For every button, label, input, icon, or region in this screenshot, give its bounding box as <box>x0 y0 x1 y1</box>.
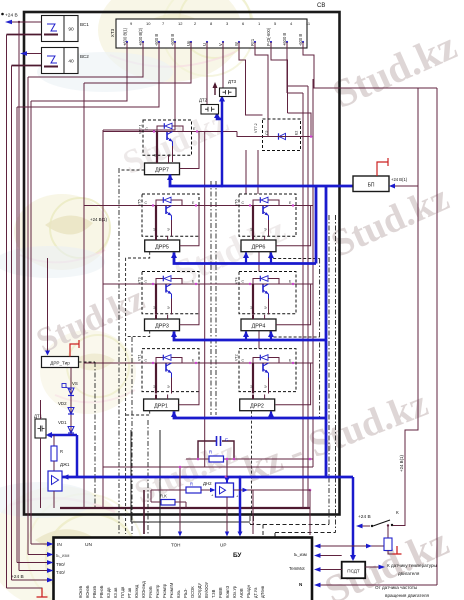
thyristor VS <box>62 368 78 436</box>
svg-text:ДРР2: ДРР2 <box>250 404 264 410</box>
svg-text:VТ7.2: VТ7.2 <box>254 123 258 133</box>
feedback wires DRR to collector <box>179 132 311 405</box>
wire BC1 output arrow <box>5 20 42 25</box>
wire pin1 to left bus <box>31 42 127 101</box>
current sensor DT2 <box>199 98 219 115</box>
stub wires module to driver <box>156 155 253 399</box>
svg-text:ТОН: ТОН <box>171 543 181 548</box>
sense wires down to BU <box>143 490 145 534</box>
junction dot <box>387 524 389 526</box>
XT3 pin labels <box>123 27 304 46</box>
chassis symbol red <box>37 588 48 597</box>
driver DRR3 <box>145 319 180 331</box>
bottom thick maroon bus <box>60 507 310 509</box>
svg-text:ВУ/ЮОУ: ВУ/ЮОУ <box>204 581 209 598</box>
blue gate bus row1 <box>170 175 353 187</box>
svg-text:VТ1: VТ1 <box>138 354 142 361</box>
svg-text:РкомпМ: РкомпМ <box>169 582 174 598</box>
svg-text:РУкэБ: РУкэБ <box>148 586 153 598</box>
row3 collector wire <box>103 283 313 285</box>
svg-text:КомпЗ: КомпЗ <box>225 585 230 598</box>
enclosure frame CB <box>24 12 340 515</box>
svg-text:Р-О(-600): Р-О(-600) <box>266 27 271 46</box>
XT3 pin numbers <box>130 21 311 26</box>
wire pin8 to VT7.2 <box>239 42 263 115</box>
terminal block XT3 <box>116 19 307 48</box>
current sensor DT3 <box>220 79 237 97</box>
svg-text:Т90/: Т90/ <box>56 562 66 567</box>
svg-text:ПЛ.дв: ПЛ.дв <box>120 587 125 598</box>
svg-text:ВС2: ВС2 <box>80 54 89 59</box>
svg-text:V: V <box>218 43 223 46</box>
left vertical bus wires <box>7 22 104 588</box>
rectifier BC2 <box>42 48 90 74</box>
svg-text:Юх.Ур: Юх.Ур <box>232 585 237 598</box>
transistor VT7.1 <box>139 120 199 162</box>
wire pin6 to DT2 <box>206 42 208 105</box>
svg-text:+24 В: +24 В <box>11 574 24 580</box>
wire N speed sensor <box>314 583 437 588</box>
svg-text:ХТ3: ХТ3 <box>110 28 115 37</box>
svg-text:ПСДТ: ПСДТ <box>347 569 360 574</box>
+24V(1) rail right side <box>405 88 437 585</box>
svg-text:вращения двигателя: вращения двигателя <box>385 593 430 598</box>
svg-text:БП: БП <box>368 183 375 189</box>
wire pin4 to column x103 <box>103 42 175 130</box>
svg-text:+24 В(1): +24 В(1) <box>399 454 404 472</box>
svg-text:+600 В: +600 В <box>282 33 287 46</box>
resistor R snubber <box>209 450 224 463</box>
rectifier BC1 <box>42 16 90 42</box>
svg-text:+24 В(1): +24 В(1) <box>391 177 408 182</box>
diode VD1 <box>58 420 74 433</box>
comparator DN2 <box>203 478 239 499</box>
control wire into DRR_Tir <box>45 258 50 356</box>
svg-text:ДРР_Тир: ДРР_Тир <box>50 361 70 366</box>
XT3 pin dots <box>126 41 304 43</box>
svg-text:К датчику температуры: К датчику температуры <box>387 563 437 568</box>
wire to temperature sensor <box>365 565 385 570</box>
wire pin10 to right column <box>271 42 288 113</box>
svg-text:КЗ.дв: КЗ.дв <box>106 587 111 598</box>
svg-text:РТ.ав: РТ.ав <box>127 588 132 598</box>
svg-text:Рtьодн: Рtьодн <box>246 585 251 598</box>
dash-dot boundary left pair <box>119 168 336 534</box>
wire BP input from +24V rail <box>389 184 418 189</box>
transistor VT7.2 diode module <box>254 119 301 151</box>
wire pin7 to DT3 <box>222 42 224 88</box>
svg-text:КОтрДУ: КОтрДУ <box>197 583 202 598</box>
svg-text:РВнэБ: РВнэБ <box>99 585 104 598</box>
svg-text:ДТ1: ДТ1 <box>34 414 43 419</box>
blue riser to row2 <box>315 186 318 264</box>
wire BC1 supply <box>7 34 42 36</box>
svg-text:R: R <box>190 482 193 487</box>
transistor VT2 <box>235 349 297 394</box>
divider wire y490 <box>151 489 186 491</box>
svg-text:VТ6: VТ6 <box>235 199 239 206</box>
watermark logo bottom-left <box>0 482 165 600</box>
svg-text:Т.ЗВ: Т.ЗВ <box>211 589 216 598</box>
dashed gate links DRR to bus <box>119 170 320 516</box>
driver DRR1 <box>144 399 179 411</box>
DN2 output wire <box>227 488 310 535</box>
node +24 V top-left <box>1 13 17 19</box>
svg-text:R: R <box>60 449 63 454</box>
svg-text:VТ2: VТ2 <box>235 354 239 361</box>
svg-text:R: R <box>209 450 212 455</box>
dashed boundary to PSDT <box>250 525 336 538</box>
svg-text:РВкэБ: РВкэБ <box>92 586 97 598</box>
row2 collector wire <box>84 205 313 207</box>
svg-text:ДТ3: ДТ3 <box>228 79 237 84</box>
svg-text:VТ7.1: VТ7.1 <box>139 124 143 134</box>
svg-text:-600 В: -600 В <box>154 34 159 46</box>
svg-text:Uр: Uр <box>186 40 191 46</box>
wire BC2 supply <box>12 65 42 67</box>
black signal wires to BU <box>130 430 132 522</box>
svg-text:+24 В: +24 В <box>358 514 371 520</box>
svg-text:VТ3: VТ3 <box>138 277 142 284</box>
snubber loop <box>198 441 234 459</box>
wire pin9 to VT7.2 <box>255 42 268 137</box>
junction node on BC1 output <box>18 21 20 23</box>
arrow marker near DT3 <box>213 82 218 95</box>
driver DRR5 <box>145 240 180 252</box>
transistor VT6 <box>235 194 297 236</box>
resistor R input <box>186 482 216 494</box>
diode VD2 <box>58 401 74 414</box>
svg-text:ДРР3: ДРР3 <box>155 324 169 330</box>
driver DRR7 <box>145 163 180 175</box>
svg-text:VТ5: VТ5 <box>138 199 142 206</box>
svg-text:двигателя: двигателя <box>398 571 420 576</box>
blue gate bus row3 <box>174 332 326 341</box>
central vertical wires <box>205 79 313 508</box>
svg-text:КОнэБ: КОнэБ <box>85 585 90 598</box>
svg-text:Рtь3-: Рtь3- <box>183 588 188 598</box>
measurement wire y467 <box>103 466 313 468</box>
svg-text:Ркомпр: Ркомпр <box>162 583 167 598</box>
svg-text:TemMot: TemMot <box>289 566 305 571</box>
svg-text:VD2: VD2 <box>58 401 67 406</box>
svg-text:Юкэжд: Юкэжд <box>134 584 139 598</box>
svg-text:Е2: Е2 <box>295 131 299 135</box>
snubber wire y459 <box>186 458 313 460</box>
current sensor DT1 <box>34 400 46 508</box>
svg-text:-600 В: -600 В <box>170 34 175 46</box>
svg-text:R.К: R.К <box>160 494 167 499</box>
svg-text:Кэtь: Кэtь <box>176 590 181 598</box>
control unit BU <box>54 538 313 600</box>
driver DRR6 <box>241 240 276 252</box>
wire BU tb line <box>314 553 342 558</box>
relay coil resistor <box>384 526 393 555</box>
svg-text:АЮВ: АЮВ <box>239 588 244 598</box>
blue gate bus row4 <box>174 412 326 419</box>
resistor R divider <box>51 435 63 471</box>
driver DRR4 <box>241 319 276 331</box>
wire pin11 to right column <box>287 42 308 86</box>
svg-text:UN: UN <box>85 542 92 548</box>
transistor VT3 <box>138 272 200 315</box>
wire tb_izm <box>314 544 384 549</box>
XT3 fan wires <box>17 42 437 137</box>
transistor VT4 <box>235 272 297 315</box>
svg-text:С2: С2 <box>265 130 269 135</box>
wire pin5 to column x84 <box>84 42 191 83</box>
junction dots on blue bus <box>225 476 228 479</box>
svg-text:дП6нв: дП6нв <box>260 586 265 598</box>
watermark logo left-middle <box>0 194 110 278</box>
sensor interface PSDT <box>342 562 366 579</box>
svg-text:12: 12 <box>178 21 183 26</box>
svg-text:ЮОнэжд: ЮОнэжд <box>141 581 146 598</box>
svg-text:ДРР6: ДРР6 <box>252 245 266 251</box>
junction dots snubber <box>197 458 200 461</box>
blue lower bus <box>62 476 353 479</box>
svg-text:От датчика частоты: От датчика частоты <box>375 585 417 590</box>
svg-text:ДРР7: ДРР7 <box>155 168 169 174</box>
blue riser to rows 3-4 and lower bus <box>325 186 328 477</box>
svg-text:+600 В(2): +600 В(2) <box>138 27 143 46</box>
svg-text:-600 В: -600 В <box>298 34 303 46</box>
svg-text:ДРР1: ДРР1 <box>154 404 168 410</box>
svg-text:Рконтр: Рконтр <box>155 584 160 598</box>
blue branch to DT1 <box>76 435 79 477</box>
dashed link DRR_Tir <box>79 361 96 363</box>
watermark logo mid-left lower <box>40 330 136 414</box>
wire TemMot <box>314 567 342 572</box>
svg-text:ДРР5: ДРР5 <box>155 245 169 251</box>
wire through VT7.2 <box>237 113 311 137</box>
svg-text:+24 В: +24 В <box>5 13 18 19</box>
ground wire bottom-left <box>7 588 43 593</box>
chassis symbol above BP <box>377 158 388 176</box>
blue sense riser to DT3 <box>221 98 224 187</box>
svg-text:40: 40 <box>68 59 74 65</box>
svg-text:tь_изм: tь_изм <box>56 553 69 558</box>
svg-text:БУ: БУ <box>233 552 242 559</box>
wire pin2 to left bus <box>28 42 143 77</box>
BU left input arrows <box>12 544 51 580</box>
wire pin3 to left bus <box>17 42 159 107</box>
svg-text:ДН2: ДН2 <box>203 481 212 486</box>
row4 collector wire <box>84 362 313 364</box>
svg-text:IN: IN <box>57 542 62 548</box>
svg-text:дТ.Уа: дТ.Уа <box>253 587 258 598</box>
svg-text:КЗ.ав: КЗ.ав <box>113 588 118 598</box>
svg-text:Т40/: Т40/ <box>56 570 66 575</box>
svg-text:СВ: СВ <box>317 3 325 9</box>
svg-text:ДРР4: ДРР4 <box>252 324 266 330</box>
svg-text:С: С <box>225 437 228 442</box>
svg-text:ДТ2: ДТ2 <box>199 98 208 103</box>
svg-text:UР: UР <box>220 543 226 548</box>
resistor R.K <box>151 490 186 508</box>
dashed link buses <box>125 258 127 534</box>
svg-text:10: 10 <box>146 21 151 26</box>
svg-text:КОкэБ: КОкэБ <box>78 586 83 598</box>
chassis symbol red right <box>393 546 402 554</box>
svg-text:РКВВ: РКВВ <box>218 587 223 598</box>
svg-text:VТ4: VТ4 <box>235 277 239 284</box>
wire BC2 output arrow <box>20 51 42 56</box>
svg-text:ДЖ1: ДЖ1 <box>60 462 70 467</box>
wires VT7.2 to row2 module <box>245 150 247 194</box>
power supply BP <box>353 176 389 192</box>
driver DRR2 <box>240 399 275 411</box>
svg-text:VS: VS <box>72 381 78 386</box>
capacitor C <box>217 436 229 446</box>
driver DRR_Tir <box>42 357 79 368</box>
blue branch to DT2 <box>217 115 222 120</box>
svg-text:U: U <box>202 43 207 46</box>
svg-text:VD1: VD1 <box>58 420 67 425</box>
chassis symbol above DRR_Tir <box>70 340 79 357</box>
blue branch to BU <box>239 477 242 533</box>
svg-text:tь_изм: tь_изм <box>294 552 307 557</box>
svg-text:90: 90 <box>68 27 74 33</box>
wire pin12 to far right vertical <box>303 42 437 88</box>
row1 collector wire <box>103 131 237 133</box>
svg-text:ОСОК: ОСОК <box>190 586 195 598</box>
blue branch to PSDT <box>352 477 355 559</box>
watermark logo top-left <box>37 0 254 92</box>
transistor VT5 <box>138 194 200 236</box>
BU pin labels <box>78 581 265 598</box>
transistor VT1 <box>138 349 200 394</box>
switch K +24V <box>356 510 405 528</box>
blue gate bus row2 <box>174 253 316 264</box>
svg-text:К: К <box>396 510 399 515</box>
comparator DZh1 <box>48 462 70 508</box>
svg-text:+24 В(1): +24 В(1) <box>90 217 108 222</box>
svg-text:ВС1: ВС1 <box>80 22 89 27</box>
